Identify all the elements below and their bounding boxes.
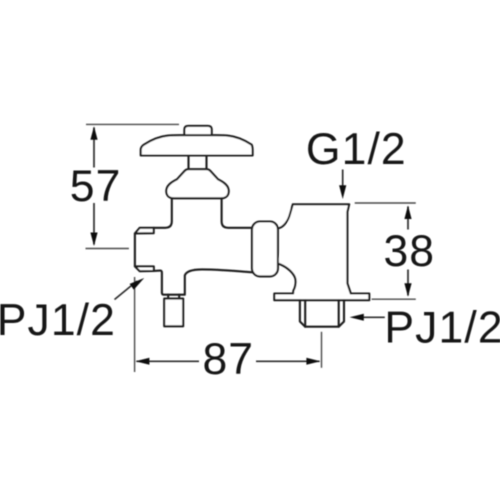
dimension 38 extension lines <box>355 202 416 204</box>
svg-text:PJ1/2: PJ1/2 <box>384 303 500 352</box>
dimension 87 line <box>137 360 320 362</box>
dimension 87 extension lines <box>134 277 136 372</box>
dimension 57 extension lines <box>86 124 416 372</box>
handle cap <box>184 126 211 135</box>
handwheel dome <box>141 135 253 155</box>
arrowhead 87 right <box>306 358 320 365</box>
handle stem <box>189 156 207 170</box>
svg-text:57: 57 <box>70 162 122 211</box>
G1/2 leader line <box>342 170 344 188</box>
bonnet bell <box>166 169 228 198</box>
right column (G1/2 socket) with flange plate <box>274 204 369 300</box>
arrowhead PJ1/2 right <box>350 314 364 321</box>
svg-text:G1/2: G1/2 <box>306 125 407 174</box>
arrowhead 57 top <box>90 126 97 140</box>
thread end face <box>134 233 136 266</box>
hex nut <box>300 300 344 327</box>
drain plug neck <box>168 295 179 299</box>
hex nut facet lines <box>305 300 339 327</box>
arrowhead G1/2 <box>339 185 346 199</box>
valve body lower edge and drain boss <box>154 269 253 294</box>
dimension 38 line <box>407 207 409 296</box>
drain plug body <box>164 299 183 327</box>
arrowhead 57 bottom <box>90 233 97 247</box>
thread top tab <box>135 228 154 234</box>
arrowhead 38 top <box>404 205 411 219</box>
PJ1/2 right leader line <box>360 316 385 318</box>
union nut (capsule) <box>252 222 278 277</box>
valve body upper-right edge to union <box>222 198 253 227</box>
PJ1/2 left leader line <box>115 281 138 300</box>
svg-text:PJ1/2: PJ1/2 <box>0 296 116 345</box>
arrowhead 38 bottom <box>404 283 411 297</box>
dimension 57 line <box>93 128 95 245</box>
svg-text:87: 87 <box>202 335 254 384</box>
thread bottom tab <box>135 266 154 271</box>
arrowhead PJ1/2 left <box>130 278 145 290</box>
valve body upper-left edge <box>154 198 172 227</box>
arrowhead 87 left <box>135 358 149 365</box>
svg-text:38: 38 <box>383 227 435 276</box>
